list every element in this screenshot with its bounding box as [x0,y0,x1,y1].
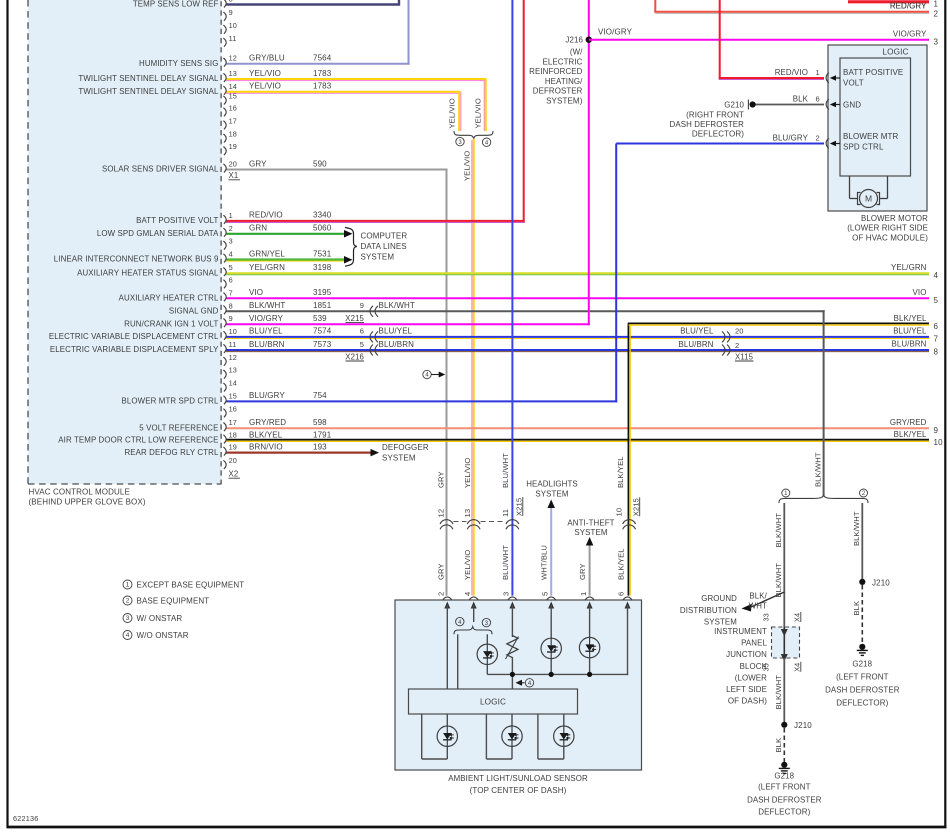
svg-text:4: 4 [463,592,472,596]
arrow to defogger system [371,449,380,457]
svg-text:YEL/VIO: YEL/VIO [462,151,471,181]
svg-text:WHT: WHT [749,601,767,610]
connector X215 (YEL/VIO vertical) [467,520,480,525]
svg-text:BLK/WHT: BLK/WHT [852,511,861,546]
svg-text:5: 5 [540,592,549,596]
svg-text:BLK/YEL: BLK/YEL [894,430,927,439]
svg-text:4: 4 [425,373,429,379]
note 4 marker with arrow [423,370,431,378]
svg-text:598: 598 [313,418,327,427]
svg-text:3: 3 [502,592,511,596]
junction J210 (branch 1) [781,722,787,728]
svg-text:BLU/WHT: BLU/WHT [501,453,510,488]
svg-text:13: 13 [229,69,237,78]
wire DK BLU temp sens low ref (X1 pin 8) [226,3,399,5]
svg-text:4: 4 [229,250,233,259]
wire YEL/GRN 3198 (X2 pin 5) [226,274,929,276]
svg-text:7: 7 [229,288,233,297]
svg-text:(LEFT FRONT: (LEFT FRONT [758,782,811,791]
svg-text:5 VOLT REFERENCE: 5 VOLT REFERENCE [139,423,218,432]
svg-text:18: 18 [229,431,237,440]
svg-text:VIO/GRY: VIO/GRY [249,314,284,323]
wire RED/VIO to blower pin 1 [719,0,721,79]
svg-text:10: 10 [229,21,237,30]
svg-text:(W/: (W/ [570,48,583,57]
svg-text:DEFLECTOR): DEFLECTOR) [758,807,810,816]
svg-text:193: 193 [313,442,327,451]
svg-text:5: 5 [934,296,939,305]
svg-text:10: 10 [934,438,944,447]
svg-text:15: 15 [229,92,237,101]
svg-text:6: 6 [934,322,939,331]
svg-text:SYSTEM: SYSTEM [361,252,395,261]
svg-text:13: 13 [463,509,472,518]
wire BLU/BRN 7573 (X2 pin 11) [226,351,929,353]
instrument panel junction block box [772,627,800,658]
svg-text:WHT/BLU: WHT/BLU [540,545,549,580]
svg-text:GRY: GRY [437,471,446,488]
svg-text:13: 13 [229,366,237,375]
svg-text:1: 1 [934,0,939,8]
svg-text:ELECTRIC VARIABLE DISPLACEMENT: ELECTRIC VARIABLE DISPLACEMENT CTRL [49,332,219,341]
svg-text:DASH DEFROSTER: DASH DEFROSTER [825,685,900,694]
svg-text:LOGIC: LOGIC [480,697,506,706]
svg-text:19: 19 [229,443,237,452]
svg-text:REAR DEFOG RLY CTRL: REAR DEFOG RLY CTRL [124,448,219,457]
wire BLU/YEL 7574 (X2 pin 10) [226,338,929,340]
svg-text:9: 9 [934,426,939,435]
svg-text:YEL/VIO: YEL/VIO [463,550,472,580]
svg-text:DATA LINES: DATA LINES [361,242,407,251]
svg-text:BRN/VIO: BRN/VIO [249,442,283,451]
svg-text:14: 14 [229,82,237,91]
svg-text:9: 9 [229,314,233,323]
sensor LOGIC box [409,689,578,714]
connector X216 (pin 6, BLU/YEL) [370,331,373,342]
svg-text:OF DASH): OF DASH) [728,697,767,706]
svg-text:HEADLIGHTS: HEADLIGHTS [526,480,578,489]
ground distribution arrow [750,592,784,608]
page frame [6,0,8,828]
svg-text:YEL/VIO: YEL/VIO [249,82,281,91]
svg-text:10: 10 [614,508,623,517]
svg-text:(LEFT FRONT: (LEFT FRONT [836,672,889,681]
svg-text:9: 9 [229,8,233,17]
svg-text:PANEL: PANEL [741,639,767,648]
svg-text:X4: X4 [793,663,802,672]
svg-text:12: 12 [229,54,237,63]
sensor note 3 circle [482,618,490,626]
svg-text:SIGNAL GND: SIGNAL GND [169,307,219,316]
svg-text:VOLT: VOLT [843,79,864,88]
svg-text:(LOWER: (LOWER [735,673,767,682]
svg-text:TEMP SENS LOW REF: TEMP SENS LOW REF [133,0,219,9]
svg-text:LINEAR INTERCONNECT NETWORK BU: LINEAR INTERCONNECT NETWORK BUS 9 [54,255,219,264]
svg-text:7574: 7574 [313,327,332,336]
blower motor M1 symbol [849,176,851,199]
svg-text:VIO: VIO [249,288,263,297]
svg-text:20: 20 [735,327,744,336]
svg-text:11: 11 [229,340,237,349]
svg-text:YEL/VIO: YEL/VIO [249,69,281,78]
svg-text:X115: X115 [735,352,754,361]
sensor pin 3 lead upper [511,605,513,637]
svg-text:1: 1 [229,211,233,220]
svg-text:COMPUTER: COMPUTER [361,231,408,240]
svg-text:3: 3 [229,237,233,246]
svg-text:BLK: BLK [852,601,861,616]
wire BLK/WHT vertical to grounds [823,310,825,496]
svg-text:BLU/BRN: BLU/BRN [678,340,713,349]
svg-text:J210: J210 [794,721,812,730]
wire YEL/VIO merged vertical [471,140,473,595]
svg-text:LEFT SIDE: LEFT SIDE [726,685,767,694]
svg-text:HUMIDITY SENS SIG: HUMIDITY SENS SIG [139,59,219,68]
svg-text:4: 4 [126,632,130,639]
sensor note 4 arrow [516,680,523,686]
svg-text:GRN/YEL: GRN/YEL [249,249,285,258]
svg-text:BATT POSITIVE VOLT: BATT POSITIVE VOLT [136,216,218,225]
svg-text:1: 1 [816,68,820,77]
svg-text:GRY/RED: GRY/RED [890,418,927,427]
svg-text:X1: X1 [229,171,239,180]
svg-text:HEATING/: HEATING/ [545,77,583,86]
blower LOGIC box [840,58,911,176]
blower motor box [828,45,927,211]
svg-text:16: 16 [229,404,237,413]
blower pin socket y=143.5 [826,138,829,148]
svg-text:GRY: GRY [578,563,587,580]
svg-text:SYSTEM: SYSTEM [574,528,607,537]
svg-text:BLU/WHT: BLU/WHT [501,545,510,580]
svg-text:J210: J210 [872,578,890,587]
photodiode D3 [579,637,599,657]
svg-text:SYSTEM: SYSTEM [382,453,416,462]
svg-text:15: 15 [229,391,237,400]
connector X215 (GRY vertical) [440,520,453,525]
svg-text:AMBIENT LIGHT/SUNLOAD SENSOR: AMBIENT LIGHT/SUNLOAD SENSOR [448,774,588,783]
svg-text:ANTI-THEFT: ANTI-THEFT [567,518,614,527]
arrow into junction block [781,629,788,637]
svg-text:11: 11 [501,509,510,517]
svg-text:3: 3 [126,615,130,622]
svg-text:AUXILIARY HEATER STATUS SIGNAL: AUXILIARY HEATER STATUS SIGNAL [77,268,219,277]
svg-text:9: 9 [360,301,364,310]
svg-text:SYSTEM: SYSTEM [704,617,737,626]
svg-text:DISTRIBUTION: DISTRIBUTION [680,606,737,615]
wire WHT/BLU to headlights [550,508,552,596]
svg-text:RUN/CRANK IGN 1 VOLT: RUN/CRANK IGN 1 VOLT [124,319,218,328]
wire VIO 3195 (X2 pin 7) [226,297,929,299]
svg-text:DEFROSTER: DEFROSTER [533,87,583,96]
svg-text:BLK/WHT: BLK/WHT [774,675,783,710]
svg-text:8: 8 [229,0,233,4]
sensor D3 to bus [589,658,591,675]
svg-text:1783: 1783 [313,69,332,78]
svg-text:7564: 7564 [313,54,332,63]
connector X215 dashed link [454,521,467,523]
svg-text:BLU/GRY: BLU/GRY [773,133,809,142]
brace merging YEL/VIO wires [454,131,493,139]
svg-text:GRY/BLU: GRY/BLU [249,54,285,63]
ambient light/sunload sensor box [395,600,642,770]
svg-text:35: 35 [762,663,771,671]
svg-text:5: 5 [229,263,233,272]
svg-text:AIR TEMP DOOR CTRL LOW REFEREN: AIR TEMP DOOR CTRL LOW REFERENCE [58,436,218,445]
svg-text:W/O ONSTAR: W/O ONSTAR [137,631,189,640]
svg-text:12: 12 [437,509,446,518]
svg-text:2: 2 [816,133,820,142]
wire RED/GRY to edge 2 [654,0,656,13]
svg-text:BLK: BLK [774,738,783,753]
svg-text:HVAC CONTROL MODULE: HVAC CONTROL MODULE [29,488,130,497]
svg-text:BLK/YEL: BLK/YEL [249,430,283,439]
note 1 circle (except base equipment) [782,489,790,497]
svg-text:5: 5 [360,340,364,349]
svg-text:DASH DEFROSTER: DASH DEFROSTER [670,120,745,129]
sensor output loop 1 [421,714,423,759]
svg-text:REINFORCED: REINFORCED [529,67,583,76]
svg-text:BLOWER MTR SPD CTRL: BLOWER MTR SPD CTRL [122,397,219,406]
sensor pin 3 lead lower [511,657,513,689]
ground G218 (branch 2) [859,644,865,650]
svg-text:YEL/GRN: YEL/GRN [249,263,285,272]
sensor pin 6 lead [627,605,629,675]
svg-text:GRY/RED: GRY/RED [249,418,286,427]
arrow anti-theft system [586,537,594,546]
wire BLK/YEL 1791 (X2 pin 18) [226,439,929,441]
svg-text:EXCEPT BASE EQUIPMENT: EXCEPT BASE EQUIPMENT [137,580,245,589]
connector X215 (BLK/YEL vertical) [623,520,636,525]
photodiode output D4 [437,726,457,746]
connector X115 (pin 2, BLU/BRN) [727,345,730,356]
wire BLK dashed to G218 (branch 1) [783,728,785,763]
svg-text:(RIGHT FRONT: (RIGHT FRONT [686,111,744,120]
wire BRN/VIO 193 (X2 pin 19) [226,452,371,454]
svg-text:2: 2 [437,592,446,596]
sensor internal bus [487,673,628,675]
photodiode D2 [541,638,561,658]
svg-text:BLOWER MTR: BLOWER MTR [843,132,899,141]
svg-text:2: 2 [735,341,739,350]
connector X115 (pin 20, BLU/YEL) [727,331,730,342]
wire GRY/BLU 7564 (X1 pin 12) [226,63,410,65]
arrow to computer data lines (pin 4) [344,256,353,264]
sensor pin 4 lead [473,605,475,622]
arrow out of junction block [781,654,788,662]
svg-text:X215: X215 [345,314,364,323]
svg-text:GND: GND [843,101,861,110]
wire GRY 590 (X1 pin 20) [226,169,448,171]
svg-text:539: 539 [313,314,327,323]
wire BLK dashed to G218 (branch 2) [861,585,863,645]
svg-text:LOW SPD GMLAN SERIAL DATA: LOW SPD GMLAN SERIAL DATA [97,229,219,238]
HVAC box right border (between pins) [220,0,222,484]
svg-text:BLK/YEL: BLK/YEL [616,548,625,580]
photo resistor R1 [507,636,518,658]
svg-text:11: 11 [229,34,237,43]
sensor note 4 circle [456,617,464,625]
note 4 circle (W/O ONSTAR) [482,138,490,146]
svg-text:X216: X216 [345,352,364,361]
svg-text:BLK/WHT: BLK/WHT [774,563,783,598]
sensor output loop 2 [485,714,487,759]
svg-text:X2: X2 [229,470,239,479]
svg-text:1: 1 [126,582,130,589]
svg-text:GRY: GRY [249,159,267,168]
svg-text:YEL/VIO: YEL/VIO [473,98,482,128]
svg-text:VIO: VIO [913,288,927,297]
svg-text:3195: 3195 [313,288,332,297]
svg-text:YEL/VIO: YEL/VIO [448,98,457,128]
svg-text:5060: 5060 [313,224,332,233]
svg-text:1791: 1791 [313,430,332,439]
wire BLK/WHT branch 2 [861,503,863,583]
svg-text:BLU/YEL: BLU/YEL [893,327,927,336]
svg-text:X215: X215 [515,498,524,516]
svg-text:BLU/BRN: BLU/BRN [379,340,415,349]
svg-text:DEFLECTOR): DEFLECTOR) [836,698,888,707]
connector X215 (pin 9, BLK/WHT) [370,306,373,317]
wire YEL/VIO 1783 (X1 pin 13) [226,80,487,82]
svg-text:G218: G218 [774,771,794,780]
svg-text:BATT POSITIVE: BATT POSITIVE [843,68,903,77]
bus junction dots [510,672,515,677]
svg-text:3198: 3198 [313,263,332,272]
svg-text:GRN: GRN [249,224,267,233]
svg-text:GROUND: GROUND [701,594,737,603]
svg-text:RED/GRY: RED/GRY [890,1,927,10]
svg-text:BLK/YEL: BLK/YEL [616,456,625,488]
wire GRY/RED 598 (X2 pin 17) [226,427,929,429]
G210 splice symbol [747,100,749,110]
svg-text:J216: J216 [565,36,583,45]
sensor D2 to bus [550,659,552,675]
svg-text:JUNCTION: JUNCTION [726,650,767,659]
svg-text:RED/VIO: RED/VIO [249,211,283,220]
legend note 4 [123,631,132,640]
sensor branch to photodiode D1 [486,634,488,644]
blower pin socket y=78 [826,73,829,83]
svg-text:8: 8 [934,348,939,357]
svg-text:BLK/WHT: BLK/WHT [249,301,285,310]
svg-text:590: 590 [313,159,327,168]
svg-text:BLK/: BLK/ [749,592,767,601]
wire BLK/YEL vertical branch [627,324,629,596]
wire BLU/WHT vertical [511,0,513,596]
wire BLU/GRY 754 (X2 pin 15) [226,400,617,402]
svg-text:17: 17 [229,116,237,125]
photodiode D1 [477,644,497,664]
svg-text:VIO/GRY: VIO/GRY [893,29,927,38]
sensor pin 2 lead [446,605,448,689]
svg-text:SPD CTRL: SPD CTRL [843,143,884,152]
svg-text:33: 33 [762,613,771,621]
svg-text:X4: X4 [793,613,802,622]
svg-text:6: 6 [617,592,626,596]
svg-text:AUXILIARY HEATER CTRL: AUXILIARY HEATER CTRL [119,294,219,303]
connector X215 (BLU/WHT vertical) [506,520,519,525]
svg-text:7531: 7531 [313,249,332,258]
svg-text:BLU/YEL: BLU/YEL [379,327,413,336]
sensor option brace [454,627,492,635]
sensor connector sockets with arrows [443,597,453,600]
svg-text:W/ ONSTAR: W/ ONSTAR [137,614,183,623]
svg-text:7573: 7573 [313,340,332,349]
svg-text:6: 6 [360,327,364,336]
svg-text:SYSTEM: SYSTEM [535,489,568,498]
svg-text:TWILIGHT SENTINEL DELAY SIGNAL: TWILIGHT SENTINEL DELAY SIGNAL [78,87,219,96]
svg-text:17: 17 [229,418,237,427]
sensor pin 1 lead [589,605,591,637]
svg-text:INSTRUMENT: INSTRUMENT [714,627,767,636]
svg-text:YEL/GRN: YEL/GRN [891,263,927,272]
wire GRN 5060 (X2 pin 2) [226,233,345,235]
svg-text:8: 8 [229,301,233,310]
svg-text:G210: G210 [724,101,744,110]
svg-text:3: 3 [458,140,462,146]
wire YEL/VIO 1783 (X1 pin 14) [226,92,458,94]
wire BLK G210 to blower pin 6 [754,104,824,106]
svg-text:LOGIC: LOGIC [882,48,908,57]
svg-text:BLU/GRY: BLU/GRY [249,391,285,400]
svg-text:(LOWER RIGHT SIDE: (LOWER RIGHT SIDE [847,224,928,233]
connector X1 and X2 pin sockets [223,0,226,7]
svg-text:2: 2 [934,9,939,18]
svg-text:20: 20 [229,160,237,169]
svg-text:6: 6 [816,94,820,103]
svg-text:19: 19 [229,142,237,151]
svg-text:ELECTRIC VARIABLE DISPLACEMENT: ELECTRIC VARIABLE DISPLACEMENT SPLY [50,345,219,354]
svg-text:2: 2 [126,598,130,605]
svg-text:2: 2 [229,224,233,233]
sensor D1 to bus [486,665,488,675]
svg-text:BLU/YEL: BLU/YEL [249,327,283,336]
svg-text:X215: X215 [631,498,640,516]
svg-text:1851: 1851 [313,301,332,310]
svg-text:4: 4 [485,140,489,146]
svg-text:BLK/WHT: BLK/WHT [814,452,823,487]
svg-text:1783: 1783 [313,82,332,91]
svg-text:DEFLECTOR): DEFLECTOR) [692,130,744,139]
legend note 2 [123,596,132,605]
svg-text:OF HVAC MODULE): OF HVAC MODULE) [852,233,928,242]
svg-text:DEFOGGER: DEFOGGER [382,443,429,452]
svg-text:BLK/WHT: BLK/WHT [379,301,415,310]
sensor branch to logic [457,634,459,689]
svg-text:12: 12 [229,353,237,362]
wire VIO/GRY 539 (X2 pin 9) [226,323,590,325]
svg-text:SYSTEM): SYSTEM) [546,97,583,106]
svg-text:BASE EQUIPMENT: BASE EQUIPMENT [137,596,210,605]
wire BLK/WHT branch 1 [783,503,785,627]
svg-text:TWILIGHT SENTINEL DELAY SIGNAL: TWILIGHT SENTINEL DELAY SIGNAL [78,74,219,83]
svg-text:20: 20 [229,456,237,465]
wire VIO/GRY to edge 3 [589,39,929,41]
arrow headlights system [547,500,555,509]
svg-text:3: 3 [934,37,939,46]
svg-text:4: 4 [934,271,939,280]
ground G218 (branch 1) [781,762,787,768]
svg-text:ELECTRIC: ELECTRIC [543,57,583,66]
svg-text:18: 18 [229,130,237,139]
svg-text:VIO/GRY: VIO/GRY [598,27,633,36]
junction J216 [586,37,592,43]
svg-text:6: 6 [229,275,233,284]
wire inside junction block [783,627,785,658]
svg-text:16: 16 [229,103,237,112]
note 2 circle (base equipment) [860,489,868,497]
